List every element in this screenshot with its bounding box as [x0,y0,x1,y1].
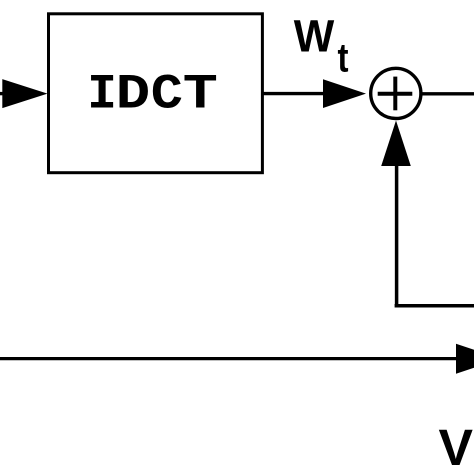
arrowhead into IDCT [2,79,47,108]
arrowhead up into adder [381,121,411,167]
svg-text:I: I [87,66,117,122]
arrowhead into adder [323,79,366,108]
svg-text:V: V [439,419,474,474]
svg-text:D: D [116,67,150,123]
svg-text:T: T [183,67,218,123]
plus sign vertical [393,77,397,111]
plus sign horizontal [378,92,413,96]
arrowhead bottom right (clipped) [456,344,474,374]
svg-text:C: C [151,67,183,123]
wire bottom long [0,357,460,360]
wire IDCT to adder [263,92,328,95]
label IDCT [87,66,218,123]
summing junction adder [371,68,421,118]
wire feedback vertical [395,160,399,306]
svg-text:t: t [338,35,349,81]
svg-text:W: W [294,11,335,62]
wire adder to right edge [421,92,474,95]
wire input to IDCT [0,92,8,95]
block IDCT [49,14,263,173]
wire feedback horizontal to right edge [395,304,474,308]
